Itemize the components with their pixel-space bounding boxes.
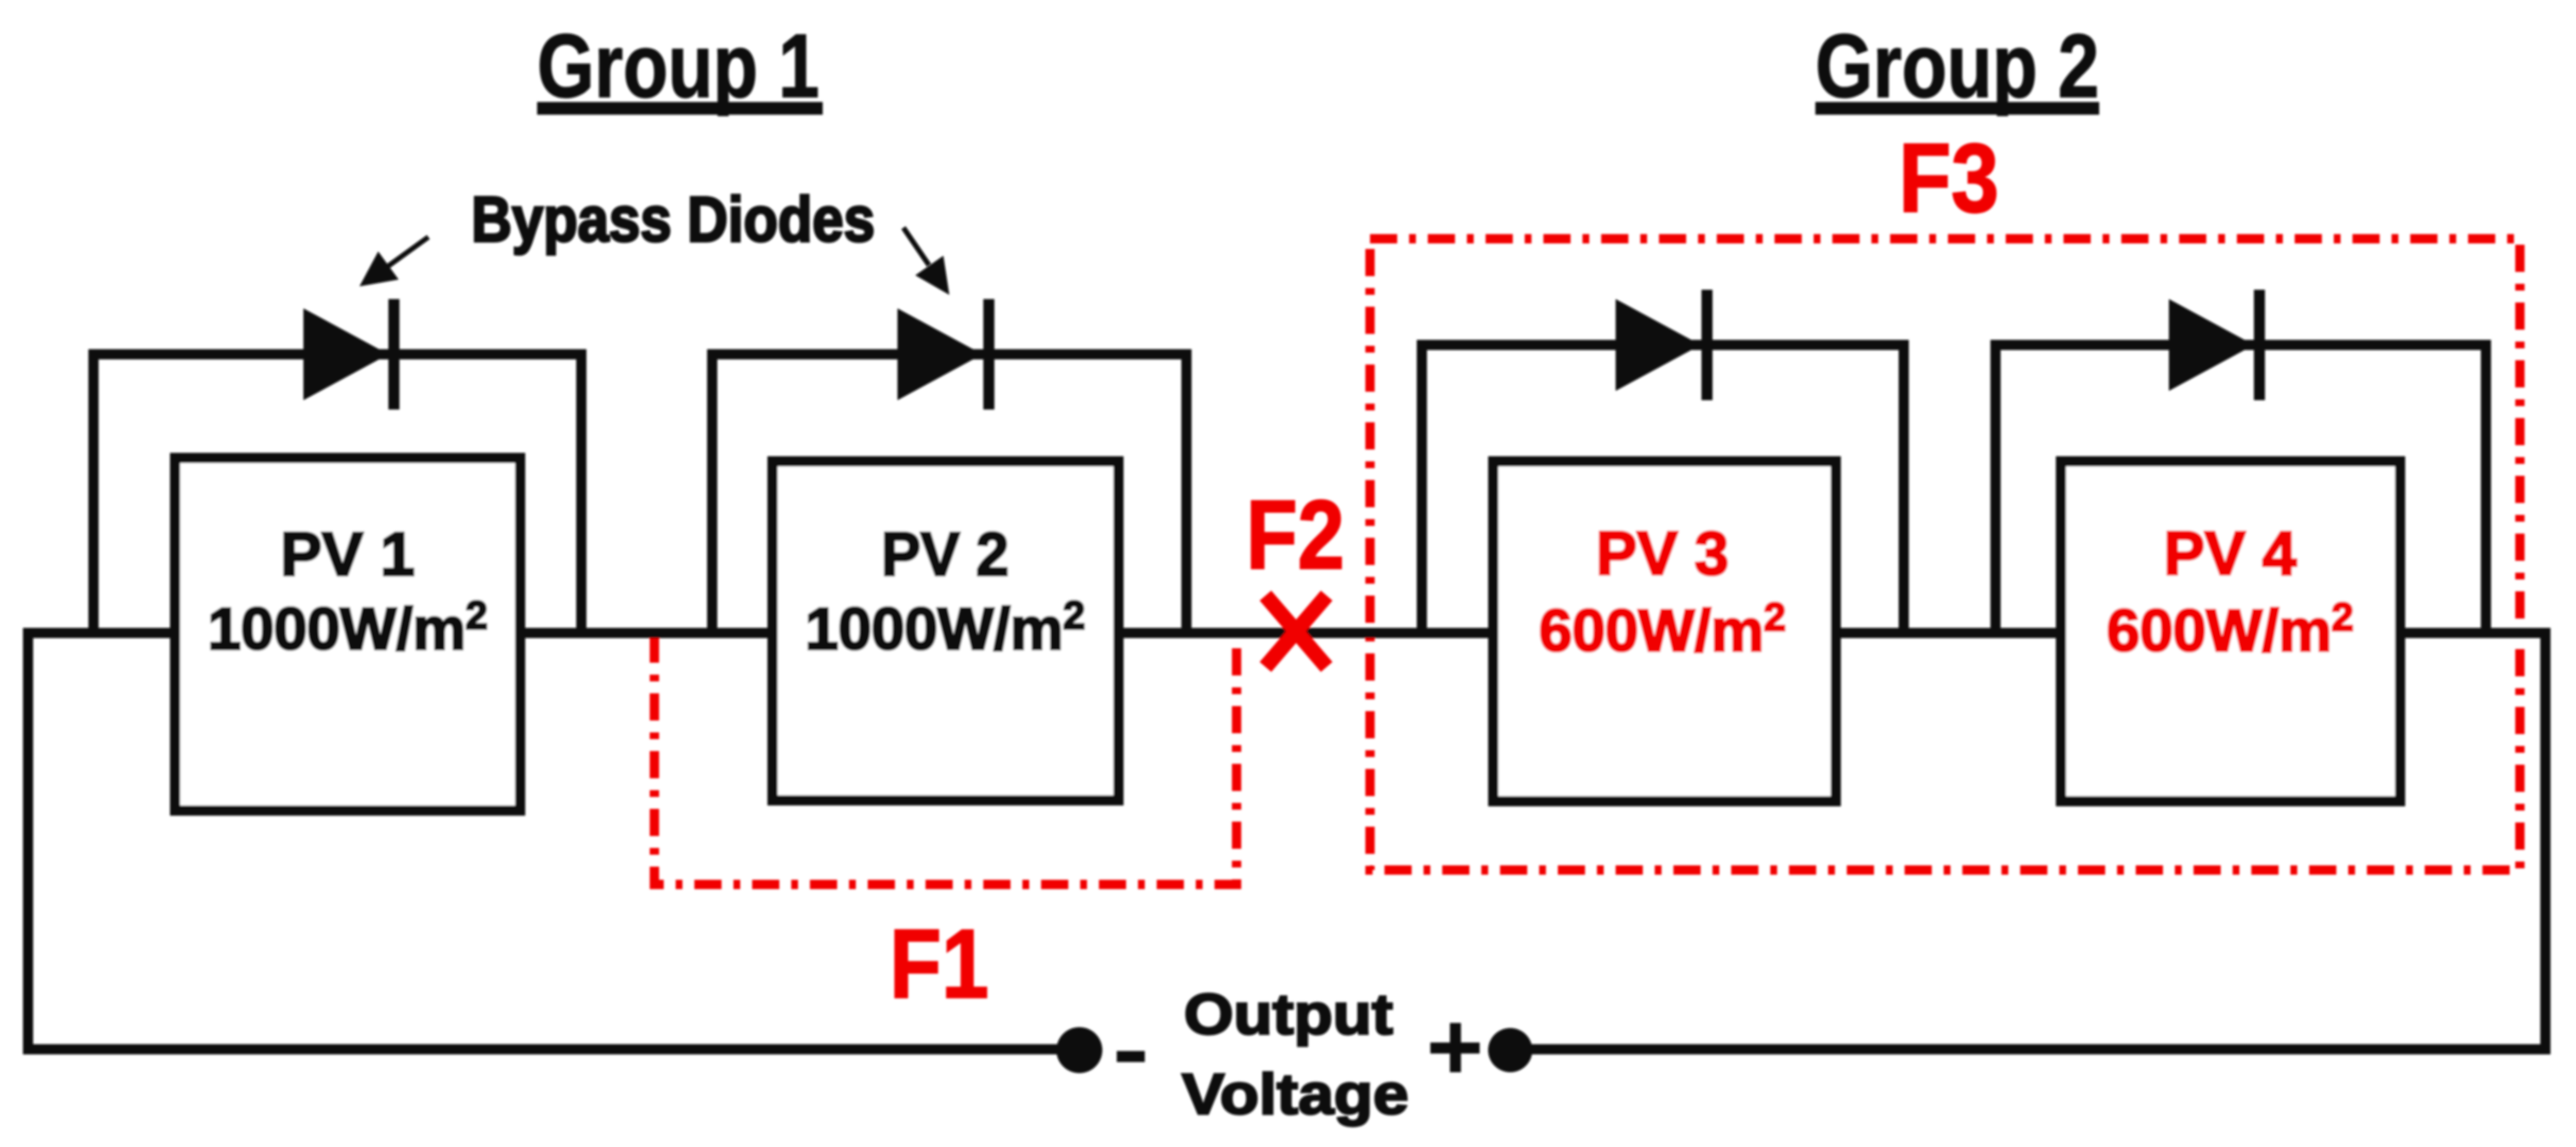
node: negative output terminal dot [1056, 1027, 1102, 1073]
wire: bottom output right segment [1516, 1044, 2551, 1054]
svg-text:PV 4: PV 4 [2164, 520, 2296, 588]
wire: PV4 bypass loop [1990, 340, 2491, 350]
annotation arrow to D1 [388, 237, 428, 266]
annotation arrow to D2 [903, 228, 929, 265]
node: positive output terminal dot [1488, 1028, 1532, 1072]
bypass diode D3 [1616, 299, 1701, 391]
svg-text:F2: F2 [1246, 481, 1345, 590]
wire: PV3 bypass loop [1417, 340, 1909, 350]
bypass diode D2 [897, 308, 982, 400]
svg-text:Output: Output [1184, 982, 1393, 1047]
PV module PV3 box [1493, 461, 1836, 801]
svg-text:1000W/m2: 1000W/m2 [207, 593, 487, 662]
PV module PV1 box [175, 458, 520, 811]
PV module PV2 box [773, 461, 1118, 800]
wire: bottom output left segment [23, 1044, 1074, 1054]
svg-text:Bypass Diodes: Bypass Diodes [472, 184, 875, 255]
plus sign [1430, 1042, 1480, 1054]
fault box F1 (red dash-dot) [654, 636, 1237, 884]
svg-text:F1: F1 [890, 910, 989, 1019]
wire: left outer vertical [23, 628, 33, 1054]
svg-text:PV 1: PV 1 [280, 521, 415, 589]
wire: PV2 bypass loop [707, 349, 1192, 359]
svg-text:Group 2: Group 2 [1815, 16, 2099, 116]
svg-text:1000W/m2: 1000W/m2 [805, 593, 1084, 662]
fault box F3 (red dash-dot) [1370, 239, 2520, 870]
bypass diode D1 [303, 308, 388, 400]
svg-text:600W/m2: 600W/m2 [1539, 595, 1786, 664]
minus sign [1117, 1051, 1145, 1062]
PV module PV4 box [2061, 461, 2400, 801]
svg-text:PV 3: PV 3 [1596, 520, 1729, 588]
wire: PV1 bypass loop [88, 349, 586, 359]
svg-text:PV 2: PV 2 [881, 521, 1009, 589]
svg-text:Group 1: Group 1 [537, 16, 819, 116]
wire: right outer vertical [2540, 628, 2551, 1054]
wire: main series bus [23, 628, 2551, 638]
svg-text:600W/m2: 600W/m2 [2107, 595, 2353, 664]
fault mark X (open circuit) [1265, 596, 1327, 667]
svg-text:F3: F3 [1899, 124, 1999, 233]
svg-text:Voltage: Voltage [1182, 1062, 1409, 1127]
bypass diode D4 [2169, 299, 2254, 391]
